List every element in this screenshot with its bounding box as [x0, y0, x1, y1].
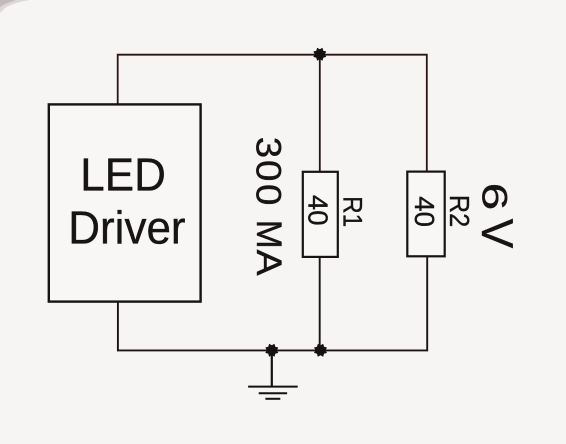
node: R1 bottom junction [314, 344, 327, 357]
svg-text:0: 0 [249, 184, 288, 205]
wire: LED driver bottom to bottom rail to R2 bottom [118, 257, 427, 351]
svg-text:40: 40 [303, 195, 334, 226]
svg-text:А: А [249, 250, 289, 276]
svg-text:6: 6 [474, 183, 513, 211]
svg-text:V: V [472, 219, 521, 249]
svg-text:М: М [249, 220, 288, 249]
svg-text:LED: LED [80, 149, 166, 201]
wire: LED driver top to top rail to R2 top [118, 55, 427, 172]
node: ground junction [265, 344, 278, 357]
svg-text:0: 0 [249, 160, 288, 181]
voltage label 6 V [472, 183, 521, 249]
svg-text:40: 40 [409, 196, 440, 227]
svg-text:R1: R1 [337, 196, 366, 227]
current label 300 mA [249, 137, 289, 276]
ground [248, 387, 298, 399]
svg-text:3: 3 [249, 137, 288, 158]
resistor R1 [303, 172, 338, 257]
svg-text:R2: R2 [444, 195, 475, 227]
torn-edge smudge top-left corner [0, 0, 30, 13]
svg-text:Driver: Driver [68, 201, 185, 253]
wire: top junction down to R1 top [319, 55, 321, 172]
wire: R1 bottom to bottom rail [319, 257, 321, 351]
LED Driver box [49, 104, 201, 301]
resistor R2 [407, 172, 444, 257]
node: top junction [313, 48, 326, 61]
wire: ground stub [271, 350, 273, 386]
